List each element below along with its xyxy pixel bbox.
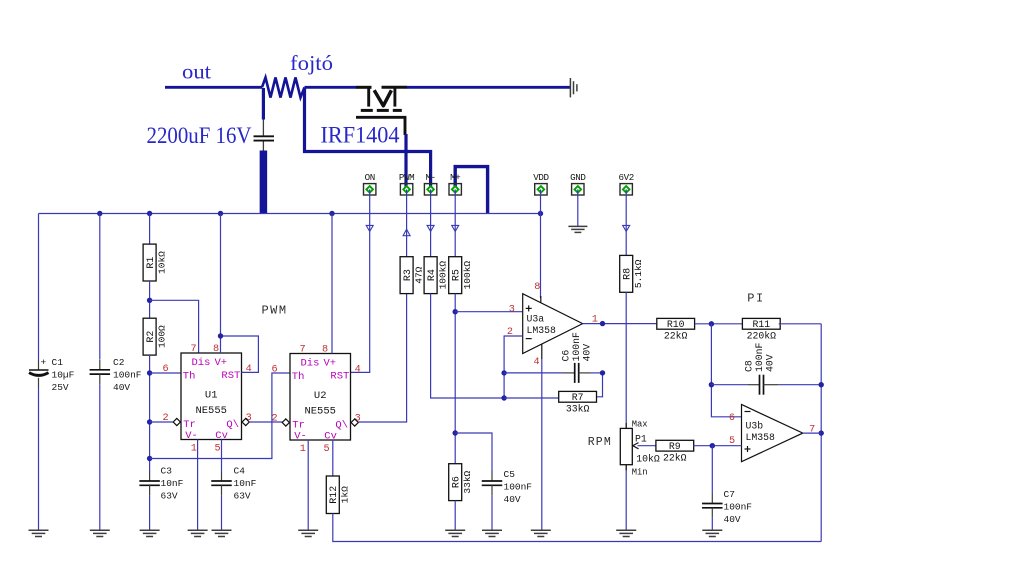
wire ON to U2 RST bbox=[351, 189, 370, 372]
wire R11 to out vertical bbox=[779, 323, 822, 325]
svg-text:R4: R4 bbox=[427, 269, 438, 281]
junction bus C2 bbox=[97, 211, 102, 216]
svg-text:5.1kΩ: 5.1kΩ bbox=[633, 259, 644, 288]
svg-text:V+: V+ bbox=[215, 357, 228, 369]
op-amp U3a bbox=[523, 294, 583, 354]
label U3b pin7 bbox=[809, 425, 815, 436]
wire U1 pin5 to C4 bbox=[221, 440, 223, 472]
svg-text:220kΩ: 220kΩ bbox=[747, 331, 777, 342]
wire bus to C2 bbox=[99, 214, 101, 360]
ground U3a pin4 bbox=[531, 530, 551, 536]
ground C4 bbox=[212, 530, 232, 536]
svg-text:P1: P1 bbox=[635, 434, 647, 445]
wire R7 net bbox=[504, 373, 602, 398]
svg-text:R3: R3 bbox=[403, 269, 414, 281]
label C5 values bbox=[504, 469, 533, 505]
wire 2200uF to bus very thick bbox=[260, 151, 268, 214]
junction U2 Th tap bbox=[147, 456, 152, 461]
ground C5 bbox=[482, 530, 502, 536]
ground C1 bbox=[29, 530, 49, 536]
wire U1 V+ RST loop bbox=[221, 214, 259, 373]
label C2 values bbox=[113, 357, 142, 393]
wire U2 Th link bbox=[150, 373, 290, 459]
svg-text:Dis: Dis bbox=[192, 357, 211, 369]
net arrow M- bbox=[427, 225, 434, 231]
wire out net bbox=[165, 86, 262, 89]
op-amp U3b bbox=[742, 405, 803, 462]
wire GND pin down bbox=[577, 189, 579, 226]
potentiometer P1 bbox=[620, 419, 660, 477]
net arrow PWM bbox=[403, 229, 410, 236]
wire C7 to ground bbox=[711, 518, 713, 531]
wire R12 to bottom rail bbox=[333, 514, 821, 542]
resistor R6 bbox=[449, 464, 473, 501]
label C6 values bbox=[561, 332, 593, 362]
svg-text:Max: Max bbox=[632, 419, 648, 429]
label IRF1404 bbox=[321, 123, 400, 148]
svg-text:Tr: Tr bbox=[292, 419, 305, 431]
connector pin GND bbox=[570, 172, 586, 195]
wire U3b out stub bbox=[803, 432, 821, 434]
svg-text:R1: R1 bbox=[146, 257, 157, 269]
svg-text:C8: C8 bbox=[744, 360, 755, 372]
op U1 NE555 bbox=[163, 344, 252, 454]
svg-text:NE555: NE555 bbox=[304, 405, 336, 417]
svg-text:C2: C2 bbox=[113, 357, 125, 368]
label fojto bbox=[290, 51, 333, 75]
connector pin VDD bbox=[533, 172, 549, 195]
junction bus U2 V+ bbox=[329, 211, 334, 216]
svg-text:Dis: Dis bbox=[301, 358, 320, 370]
label C8 values bbox=[744, 342, 776, 372]
svg-text:M+: M+ bbox=[450, 172, 460, 183]
label PWM section bbox=[261, 304, 287, 318]
wire R6 to ground bbox=[454, 501, 456, 531]
wire Th to U1 bbox=[150, 372, 181, 374]
net arrow M+ bbox=[452, 225, 459, 231]
wire U2 V+ to bus bbox=[331, 214, 333, 354]
ground top right rotated bbox=[570, 78, 577, 97]
wire integrator node bbox=[711, 324, 741, 417]
svg-text:NE555: NE555 bbox=[195, 405, 227, 417]
svg-text:V+: V+ bbox=[324, 358, 337, 370]
svg-text:V-: V- bbox=[294, 431, 307, 443]
junction pin1 node bbox=[600, 321, 605, 326]
junction C8 left node bbox=[709, 382, 714, 387]
svg-text:out: out bbox=[182, 60, 211, 84]
label C1 values bbox=[52, 357, 75, 393]
resistor R10 bbox=[657, 318, 695, 341]
capacitor C1out 2200uF branch wire bbox=[262, 88, 265, 120]
svg-text:8: 8 bbox=[213, 344, 219, 355]
svg-text:Tr: Tr bbox=[183, 419, 196, 431]
svg-text:63V: 63V bbox=[234, 491, 251, 502]
op U2 NE555 bbox=[272, 345, 361, 455]
svg-text:6: 6 bbox=[163, 364, 169, 375]
svg-text:V-: V- bbox=[185, 430, 198, 442]
svg-text:R2: R2 bbox=[146, 331, 157, 343]
junction R6 top bbox=[453, 430, 458, 435]
svg-text:ON: ON bbox=[365, 172, 375, 183]
svg-text:R11: R11 bbox=[752, 319, 770, 330]
label C4 values bbox=[234, 466, 257, 502]
wire Dis node to U1 pin7 bbox=[150, 300, 199, 353]
wire VDD bus bbox=[39, 213, 541, 215]
label U3a pin1 bbox=[592, 315, 598, 326]
wire 6V2 to R8 bbox=[625, 189, 627, 255]
svg-text:40V: 40V bbox=[113, 382, 130, 393]
junction bus U1 V+ bbox=[218, 211, 223, 216]
net arrow ON bbox=[366, 225, 373, 231]
svg-text:R10: R10 bbox=[667, 319, 685, 330]
net arrow 6V2 bbox=[623, 225, 630, 231]
wire mosfet to ground bbox=[407, 86, 571, 89]
svg-text:40V: 40V bbox=[724, 514, 741, 525]
svg-text:M-: M- bbox=[425, 172, 435, 183]
svg-text:100Ω: 100Ω bbox=[156, 325, 167, 348]
label C7 values bbox=[724, 489, 753, 525]
junction pin1 C6 bbox=[600, 370, 605, 375]
wire C4 to ground bbox=[221, 495, 223, 530]
svg-text:2: 2 bbox=[163, 413, 169, 424]
svg-text:RST: RST bbox=[221, 370, 240, 382]
svg-text:40V: 40V bbox=[582, 344, 593, 362]
junction bus VDD pin bbox=[538, 211, 543, 216]
svg-text:63V: 63V bbox=[161, 491, 178, 502]
junction pin5 C7 bbox=[710, 443, 715, 448]
svg-text:LM358: LM358 bbox=[746, 432, 776, 443]
wire C1 to ground bbox=[38, 388, 40, 531]
label U3a pin8 bbox=[534, 282, 540, 293]
svg-text:IRF1404: IRF1404 bbox=[321, 123, 400, 148]
svg-text:100nF: 100nF bbox=[113, 370, 142, 381]
wire VDD pin to bus and U3a pin8 bbox=[540, 189, 542, 303]
resistor R7 bbox=[559, 391, 597, 414]
svg-text:10kΩ: 10kΩ bbox=[156, 251, 167, 274]
wire C6 net bbox=[504, 372, 602, 374]
wire P1 wiper to R9 bbox=[638, 445, 657, 447]
wire pin3 U3a bbox=[455, 311, 523, 313]
junction bus R1 bbox=[147, 211, 152, 216]
ground U2 V- bbox=[298, 530, 318, 536]
wire U3a out bbox=[583, 323, 657, 325]
svg-text:10µF: 10µF bbox=[52, 370, 75, 381]
svg-text:1kΩ: 1kΩ bbox=[340, 486, 351, 503]
svg-text:22kΩ: 22kΩ bbox=[663, 452, 687, 463]
svg-text:22kΩ: 22kΩ bbox=[664, 331, 688, 342]
wire U3a pin4 to ground bbox=[541, 344, 543, 530]
wire R10 R11 link bbox=[695, 323, 744, 325]
svg-text:R9: R9 bbox=[669, 441, 681, 452]
connector pin PWM bbox=[399, 172, 414, 195]
svg-text:7: 7 bbox=[190, 344, 196, 355]
svg-text:U3a: U3a bbox=[527, 313, 545, 324]
label U3a pin4 bbox=[533, 357, 539, 368]
svg-text:RPM: RPM bbox=[588, 436, 612, 449]
wire U2 pin1 to ground bbox=[307, 440, 309, 531]
svg-text:40V: 40V bbox=[504, 494, 521, 505]
junction C8 right bbox=[819, 382, 824, 387]
svg-text:6: 6 bbox=[272, 364, 278, 375]
ground C2 bbox=[90, 530, 110, 536]
junction Th node bbox=[147, 370, 152, 375]
svg-text:3: 3 bbox=[509, 304, 515, 315]
svg-text:1: 1 bbox=[300, 444, 306, 455]
svg-text:100nF: 100nF bbox=[504, 482, 533, 493]
svg-text:C5: C5 bbox=[504, 469, 516, 480]
wire M- net thick bbox=[305, 88, 431, 189]
ground R6 bbox=[445, 530, 465, 536]
svg-text:U1: U1 bbox=[205, 389, 218, 401]
resistor R5 bbox=[449, 257, 473, 294]
label C3 values bbox=[161, 466, 184, 502]
wire M- pin to R4 bbox=[430, 189, 432, 256]
svg-text:R8: R8 bbox=[622, 268, 633, 280]
wire R8 to P1 bbox=[625, 292, 627, 422]
svg-text:100nF: 100nF bbox=[571, 332, 582, 362]
svg-text:RST: RST bbox=[330, 370, 349, 382]
wire C2 to ground bbox=[99, 384, 101, 530]
connector pin 6V2 bbox=[619, 172, 634, 195]
resistor R4 bbox=[424, 257, 448, 294]
label U3b pin5 bbox=[729, 436, 735, 447]
label U3a pin3 bbox=[509, 304, 515, 315]
svg-text:4: 4 bbox=[533, 357, 539, 368]
ground U1 V- bbox=[188, 530, 208, 536]
wire C3 to ground bbox=[149, 495, 151, 530]
wire R1 to R2 bbox=[149, 281, 151, 318]
svg-text:7: 7 bbox=[299, 345, 305, 356]
wire C7 branch bbox=[711, 446, 713, 494]
junction Tr node bbox=[147, 419, 152, 424]
svg-text:Q\: Q\ bbox=[226, 419, 239, 431]
capacitor C5 bbox=[482, 471, 503, 495]
ground C3 bbox=[140, 530, 160, 536]
svg-text:fojtó: fojtó bbox=[290, 51, 333, 75]
connector pin M- bbox=[424, 172, 436, 195]
wire Tr to U1 bbox=[150, 421, 173, 423]
svg-text:GND: GND bbox=[570, 172, 586, 183]
resistor R1 bbox=[143, 244, 167, 281]
svg-text:6V2: 6V2 bbox=[619, 172, 634, 183]
svg-text:+: + bbox=[41, 357, 47, 368]
wire P1 to ground bbox=[625, 471, 627, 531]
label U3a pin2 bbox=[507, 327, 513, 338]
svg-text:100nF: 100nF bbox=[724, 502, 753, 513]
svg-text:R6: R6 bbox=[451, 476, 462, 488]
resistor R8 bbox=[620, 255, 644, 292]
wire U1 pin1 to ground bbox=[197, 440, 199, 531]
svg-text:Min: Min bbox=[632, 468, 648, 478]
svg-text:C6: C6 bbox=[561, 350, 572, 362]
junction R10 R11 bbox=[709, 321, 714, 326]
svg-text:100kΩ: 100kΩ bbox=[437, 261, 448, 290]
svg-text:47Ω: 47Ω bbox=[413, 266, 424, 283]
capacitor C1out 2200uF bbox=[254, 120, 275, 152]
svg-text:33kΩ: 33kΩ bbox=[566, 404, 590, 415]
wire inductor to mosfet bbox=[305, 86, 357, 89]
junction U3b out bbox=[819, 430, 824, 435]
wire R4 to error node bbox=[431, 294, 505, 398]
capacitor C4 bbox=[211, 471, 232, 495]
label U3b pin6 bbox=[729, 413, 735, 424]
junction C6 left bbox=[501, 370, 506, 375]
svg-text:10nF: 10nF bbox=[161, 478, 184, 489]
wire R5 down to R6 bbox=[454, 294, 456, 464]
svg-text:C3: C3 bbox=[161, 466, 173, 477]
svg-text:7: 7 bbox=[809, 425, 815, 436]
svg-text:100kΩ: 100kΩ bbox=[462, 261, 473, 290]
svg-text:Th: Th bbox=[183, 370, 196, 382]
label PI section bbox=[747, 292, 764, 306]
capacitor C8 bbox=[748, 375, 779, 395]
connector pin ON bbox=[364, 172, 376, 195]
wire R2 to Th Tr C3 bbox=[149, 355, 151, 471]
svg-text:33kΩ: 33kΩ bbox=[462, 470, 473, 493]
svg-text:Th: Th bbox=[292, 371, 305, 383]
svg-text:10kΩ: 10kΩ bbox=[636, 454, 660, 465]
svg-text:10nF: 10nF bbox=[234, 478, 257, 489]
wire bus to R1 bbox=[149, 214, 151, 245]
svg-text:8: 8 bbox=[534, 282, 540, 293]
junction R5 pin3 bbox=[453, 309, 458, 314]
svg-text:5: 5 bbox=[324, 444, 330, 455]
svg-text:LM358: LM358 bbox=[527, 325, 557, 336]
label RPM section bbox=[588, 436, 612, 449]
svg-text:U3b: U3b bbox=[746, 420, 764, 431]
svg-text:1: 1 bbox=[191, 443, 197, 454]
resistor R12 bbox=[326, 476, 350, 514]
ground GND pin bbox=[568, 226, 587, 232]
svg-text:100nF: 100nF bbox=[754, 342, 765, 372]
svg-text:R12: R12 bbox=[329, 486, 340, 504]
junction U1 V+ RST bbox=[218, 333, 223, 338]
capacitor C7 bbox=[702, 494, 723, 518]
svg-text:VDD: VDD bbox=[533, 172, 549, 183]
svg-text:2: 2 bbox=[272, 413, 278, 424]
wire PWM pin to R3 bbox=[406, 189, 408, 256]
svg-text:Cv: Cv bbox=[324, 431, 337, 443]
svg-text:4: 4 bbox=[246, 364, 252, 375]
resistor R11 bbox=[742, 318, 780, 341]
wire U2 pin5 to R12 bbox=[332, 440, 334, 476]
label out bbox=[182, 60, 211, 84]
svg-text:2200uF 16V: 2200uF 16V bbox=[147, 123, 252, 148]
svg-text:Q\: Q\ bbox=[335, 419, 348, 431]
connector pin M+ bbox=[449, 172, 461, 195]
ground C7 bbox=[702, 530, 722, 536]
junction R7 left bbox=[501, 395, 506, 400]
svg-text:5: 5 bbox=[215, 443, 221, 454]
transistor Q1 IRF1404 mosfet symbol bbox=[356, 87, 407, 135]
svg-text:C7: C7 bbox=[724, 489, 735, 500]
svg-text:PWM: PWM bbox=[261, 304, 287, 318]
wire gate to PWM pin bbox=[404, 134, 407, 189]
wire R6 node to C5 bbox=[455, 433, 492, 471]
wire U2 Q to R3 bbox=[359, 293, 407, 422]
wire M+ pin to R5 bbox=[454, 189, 456, 256]
resistor R3 bbox=[400, 257, 424, 294]
svg-text:4: 4 bbox=[355, 364, 361, 375]
svg-text:R7: R7 bbox=[572, 392, 584, 403]
capacitor C3 bbox=[139, 471, 160, 495]
wire C8 net bbox=[711, 384, 821, 386]
svg-text:PI: PI bbox=[747, 292, 764, 306]
svg-text:25V: 25V bbox=[52, 382, 69, 393]
wire bus left corner to C1 bbox=[38, 214, 40, 360]
wire C5 to ground bbox=[491, 495, 493, 530]
wire U1 Q to U2 Tr bbox=[249, 421, 283, 423]
svg-text:C4: C4 bbox=[234, 466, 246, 477]
svg-text:40V: 40V bbox=[765, 354, 776, 372]
wire U3a pin2 net bbox=[504, 336, 523, 398]
svg-text:8: 8 bbox=[322, 345, 328, 356]
capacitor C6 bbox=[564, 363, 591, 383]
wire R9 to U3b pin5 bbox=[694, 445, 742, 447]
wire M+ net thick bbox=[455, 167, 487, 214]
wire U3b out vertical bbox=[820, 324, 822, 542]
svg-text:R5: R5 bbox=[451, 269, 462, 281]
svg-text:6: 6 bbox=[729, 413, 735, 424]
svg-text:C1: C1 bbox=[52, 357, 64, 368]
resistor R2 bbox=[143, 318, 167, 355]
inductor fojto bbox=[262, 78, 305, 98]
svg-text:U2: U2 bbox=[314, 390, 327, 402]
capacitor C1 bbox=[29, 357, 49, 388]
label 2200uF 16V bbox=[147, 123, 252, 148]
junction Dis node bbox=[147, 298, 152, 303]
ground P1 bbox=[616, 530, 636, 536]
svg-text:PWM: PWM bbox=[399, 172, 414, 183]
capacitor C2 bbox=[90, 360, 111, 384]
resistor R9 bbox=[656, 440, 694, 463]
